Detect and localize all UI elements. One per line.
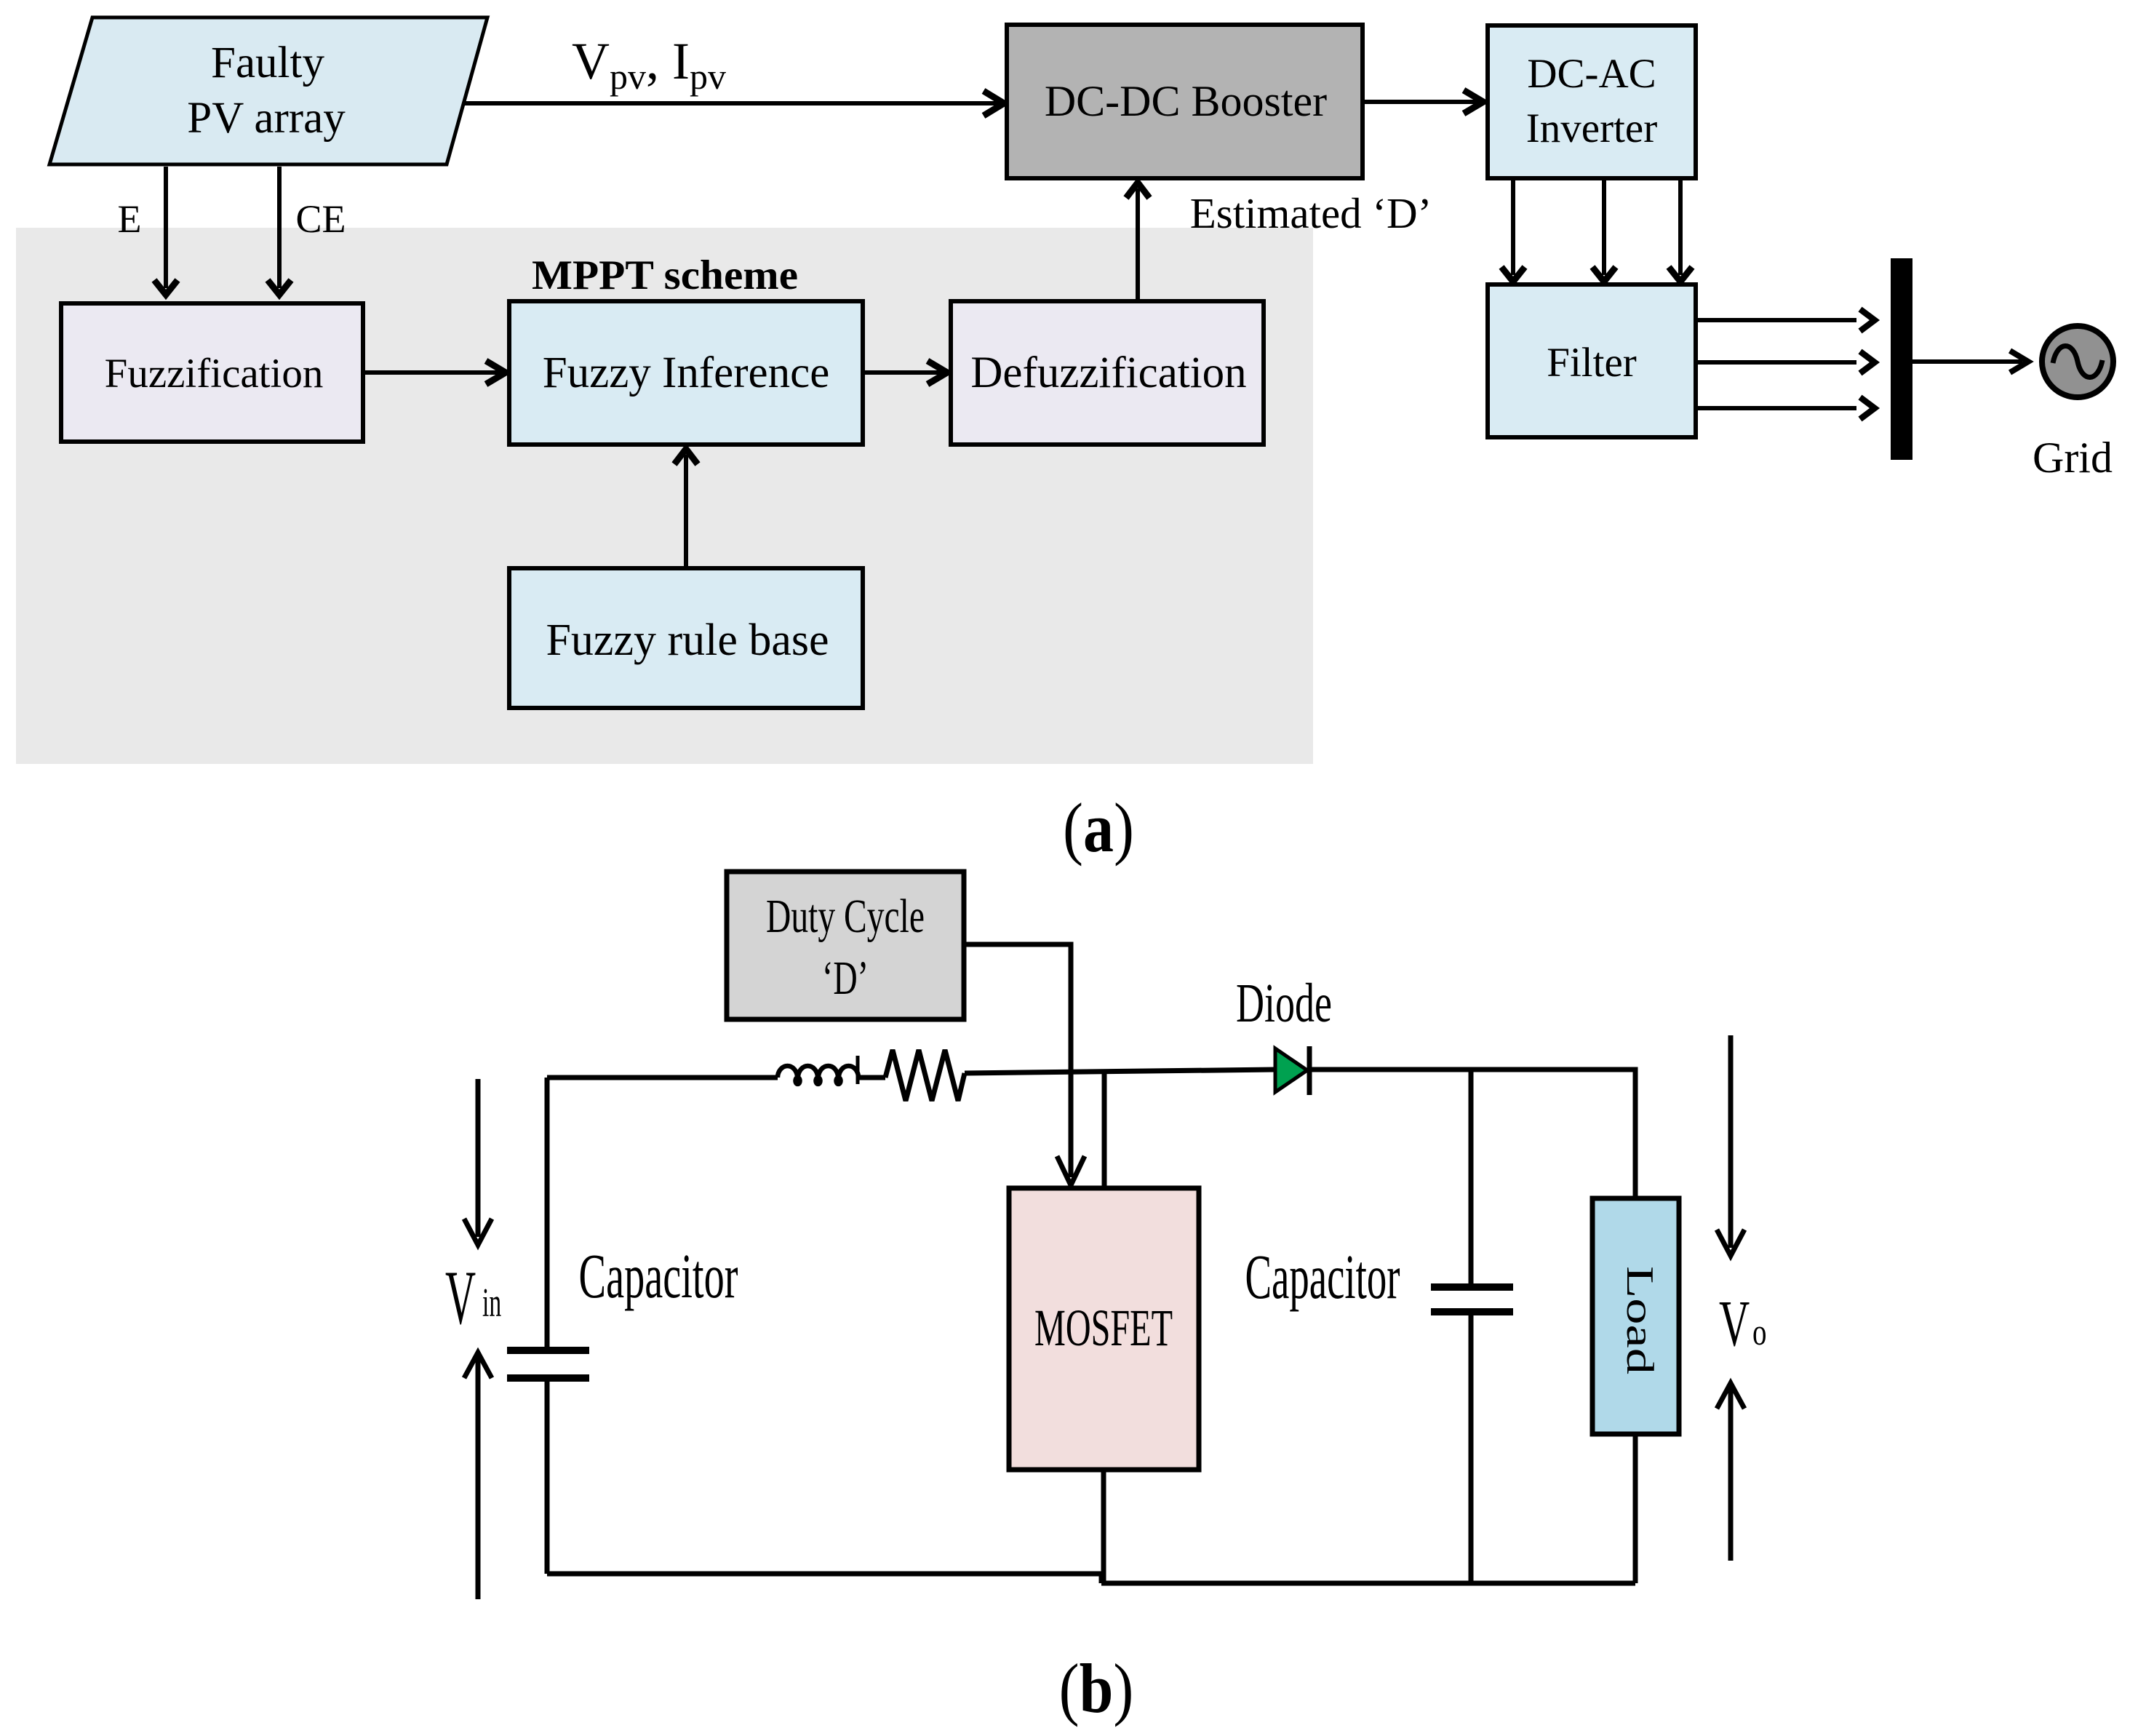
block: MOSFET: [1009, 1188, 1199, 1470]
wire: bus to grid: [1912, 351, 2028, 373]
block: Load: [1592, 1198, 1679, 1434]
wire: CE arrow from PV array to Fuzzification: [268, 167, 291, 295]
wire: left branch upper: [545, 1078, 550, 1347]
wire: load bottom lead: [1633, 1434, 1638, 1583]
block: Fuzzification: [61, 303, 363, 442]
block: Fuzzy Inference: [509, 301, 863, 445]
wire: inverter to filter phase 2: [1592, 178, 1616, 282]
bus bar: [1891, 258, 1912, 460]
diode D (triangle + cathode bar): [1275, 1046, 1309, 1095]
Vo down arrow: [1717, 1035, 1744, 1256]
Vin down arrow: [464, 1079, 492, 1245]
wire: bottom rail step: [1099, 1574, 1104, 1583]
tick at inductor end: [856, 1056, 860, 1084]
svg-text:‘D’: ‘D’: [822, 952, 869, 1005]
svg-text:Grid: Grid: [2033, 434, 2113, 482]
svg-text:DC-AC: DC-AC: [1527, 51, 1656, 97]
svg-text:Capacitor: Capacitor: [1245, 1241, 1400, 1312]
wire: Fuzzy rule base to Fuzzy Inference: [674, 449, 698, 566]
block: DC-DC Booster: [1007, 25, 1363, 178]
svg-text:Defuzzification: Defuzzification: [970, 349, 1246, 397]
MPPT scheme shaded region: [16, 228, 1313, 764]
svg-text:Faulty: Faulty: [211, 39, 324, 87]
svg-text:Load: Load: [1619, 1266, 1661, 1374]
Vo up arrow: [1717, 1383, 1744, 1561]
svg-text:MPPT scheme: MPPT scheme: [532, 252, 798, 298]
resistor R: [885, 1050, 965, 1101]
wire: filter to bus phase 3: [1696, 397, 1875, 419]
svg-text:in: in: [482, 1280, 501, 1325]
wire: PV array to DC-DC Booster: [463, 91, 1004, 116]
wire: output capacitor top lead: [1469, 1070, 1474, 1283]
svg-text:Diode: Diode: [1236, 973, 1332, 1034]
svg-text:Estimated ‘D’: Estimated ‘D’: [1190, 189, 1432, 237]
wire: filter to bus phase 1: [1696, 309, 1875, 331]
svg-text:Inverter: Inverter: [1526, 105, 1657, 151]
wire: resistor to diode: [965, 1070, 1275, 1073]
block: Faulty PV array (parallelogram): [49, 17, 487, 164]
wire: Fuzzification to Fuzzy Inference: [363, 361, 506, 384]
svg-text:Fuzzy rule base: Fuzzy rule base: [546, 616, 829, 665]
svg-text:E: E: [118, 197, 142, 241]
svg-text:Vpv, Ipv: Vpv, Ipv: [572, 32, 726, 97]
grid source symbol: [2042, 326, 2113, 397]
block: DC-AC Inverter: [1488, 25, 1696, 178]
block: Fuzzy rule base: [509, 568, 863, 708]
svg-text:V: V: [1719, 1288, 1750, 1361]
svg-text:V: V: [445, 1255, 476, 1341]
svg-text:PV array: PV array: [187, 94, 346, 143]
wire: duty cycle to MOSFET gate (arrow): [964, 944, 1085, 1185]
svg-text:Filter: Filter: [1547, 340, 1637, 386]
capacitor C1 input plates: [507, 1350, 589, 1378]
wire: DC-DC Booster to DC-AC Inverter: [1363, 90, 1483, 114]
block: Duty Cycle 'D': [727, 872, 964, 1019]
svg-text:Fuzzification: Fuzzification: [105, 351, 324, 397]
capacitor C2 output plates: [1431, 1287, 1513, 1312]
block: Defuzzification: [951, 301, 1264, 445]
svg-text:DC-DC Booster: DC-DC Booster: [1045, 77, 1327, 125]
wire: bottom rail right: [1101, 1581, 1635, 1586]
svg-text:MOSFET: MOSFET: [1034, 1299, 1173, 1357]
label Vo: [1719, 1288, 1767, 1361]
wire: inverter to filter phase 1: [1501, 178, 1525, 282]
wire: inverter to filter phase 3: [1669, 178, 1692, 282]
wire: Defuzzification to DC-DC Booster (Estimated D): [1126, 183, 1149, 300]
wire: left branch lower: [545, 1382, 550, 1574]
wire: bottom rail left: [547, 1572, 1101, 1577]
wire: MOSFET source to bottom rail: [1101, 1470, 1106, 1583]
svg-text:Duty Cycle: Duty Cycle: [766, 890, 925, 943]
svg-text:CE: CE: [295, 197, 346, 241]
inductor L: [778, 1066, 858, 1084]
block: Filter: [1488, 284, 1696, 437]
wire: Fuzzy Inference to Defuzzification: [863, 361, 947, 384]
wire: E arrow from PV array to Fuzzification: [154, 167, 177, 295]
svg-text:(a): (a): [1063, 789, 1134, 867]
wire: output capacitor bottom lead: [1469, 1315, 1474, 1583]
label Vin: [445, 1255, 501, 1341]
wire: diode to load corner: [1309, 1070, 1635, 1198]
svg-text:o: o: [1752, 1311, 1767, 1353]
wire: top left horizontal: [547, 1075, 778, 1080]
Vin up arrow: [464, 1353, 492, 1599]
svg-text:Capacitor: Capacitor: [579, 1241, 738, 1311]
wire: filter to bus phase 2: [1696, 351, 1875, 373]
svg-text:(b): (b): [1059, 1649, 1134, 1728]
wire: inductor to resistor: [859, 1075, 885, 1080]
wire: junction to MOSFET drain: [1102, 1072, 1107, 1188]
svg-text:Fuzzy Inference: Fuzzy Inference: [543, 349, 830, 397]
